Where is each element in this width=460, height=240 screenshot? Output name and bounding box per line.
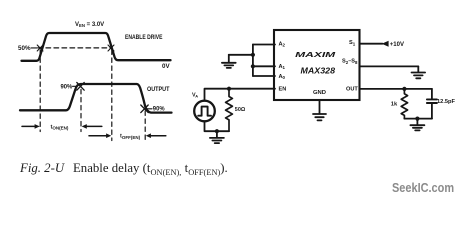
caption figure title [20,160,228,177]
svg-text:EN: EN [279,86,287,92]
svg-text:90%: 90% [61,85,73,91]
arrowhead tOFF right [146,133,151,138]
wire dashed 50% level horizontal [38,47,111,49]
node 90% marker X on output rising edge [77,83,84,91]
svg-text:OUT: OUT [346,87,358,93]
svg-text:S1: S1 [349,40,356,46]
wire tON arrow right pointing left [87,125,102,127]
svg-text:VA: VA [192,93,198,99]
svg-text:S2–S8: S2–S8 [342,59,358,65]
ground symbol at address pins [222,55,236,68]
svg-text:A0: A0 [279,74,286,80]
wire dashed vertical line t3 [111,50,113,141]
wire A0 pin stub [253,75,275,77]
svg-text:tOFF(EN): tOFF(EN) [120,134,141,140]
capacitor 12.5pF bottom lead [431,104,433,119]
wire tOFF arrow left pointing right [89,135,107,137]
junction dot address bus / ground tap [251,53,255,57]
wire ground tap to address bus [229,54,253,56]
wire EN enable-drive waveform trace [22,33,171,61]
wire tOFF arrow right pointing left [151,135,166,137]
svg-text:MAXIM: MAXIM [295,50,336,59]
svg-text:A2: A2 [279,41,286,47]
wire source bottom return [205,121,230,131]
wire OUTPUT waveform trace [20,84,172,113]
svg-text:tON(EN): tON(EN) [51,124,69,130]
wire RC bottom tie [404,118,432,120]
node 90% marker X on output falling edge [141,105,148,113]
junction dot address bus / A1 [251,64,255,68]
wire S2-S8 to ground [360,65,419,67]
svg-text:ENABLE DRIVE: ENABLE DRIVE [125,35,163,41]
svg-text:VEN = 3.0V: VEN = 3.0V [75,22,104,28]
wire label leader to lower 90% text [147,108,152,110]
svg-text:+10V: +10V [390,42,404,48]
arrowhead +10V supply [382,41,389,47]
junction dot source return / ground [215,129,219,133]
generator VA pulse glyph [198,107,211,116]
wire A1 pin stub [253,65,275,67]
wire dashed vertical line t2 [80,90,82,132]
svg-text:MAX328: MAX328 [301,66,336,75]
capacitor 12.5pF top lead [431,89,433,99]
svg-text:OUTPUT: OUTPUT [147,87,170,93]
node 50% crossing tick on falling edge [108,45,114,51]
junction dot RC bottom / ground [415,117,419,121]
resistor 50ohm zigzag [226,89,233,132]
arrowhead tON right [82,124,87,129]
node 50% crossing tick on rising edge [37,45,43,51]
svg-text:90%: 90% [153,107,165,113]
svg-text:12.5pF: 12.5pF [437,99,455,105]
wire tON arrow left pointing right [22,125,35,127]
svg-text:A1: A1 [279,64,286,70]
wire S1 to +10V supply [360,43,383,45]
capacitor 12.5pF plates [427,99,437,103]
ground symbol at RC load [410,119,424,131]
svg-text:0V: 0V [162,64,170,70]
svg-text:GND: GND [313,90,326,96]
arrowhead tOFF left [106,133,111,138]
wire label leader from 50% text [31,47,37,49]
wire A2 pin stub [253,44,275,46]
generator VA pulse source circle [194,101,215,122]
ground symbol at S2-S8 [412,66,426,78]
watermark SeekIC.com [392,180,454,195]
wire label leader from upper 90% text [73,85,78,87]
resistor 1k zigzag [401,89,407,119]
svg-text:50%: 50% [18,46,31,52]
wire dashed vertical line t4 [144,111,146,141]
junction dot EN wire / 50ohm [227,87,231,91]
wire OUT to load node [360,88,432,90]
wire address bus vertical tie [252,45,254,77]
svg-text:50Ω: 50Ω [235,107,246,113]
wire dashed vertical line t1 [39,50,41,132]
ground symbol at VA source [210,131,224,143]
ground symbol at IC GND pin [313,100,326,120]
junction dot OUT wire / 1k [402,87,406,91]
op-amp U1 MAX328 IC body [274,30,360,100]
arrowhead tON left [35,124,40,129]
wire VA node to EN pin [205,89,276,101]
svg-text:1k: 1k [391,102,398,108]
